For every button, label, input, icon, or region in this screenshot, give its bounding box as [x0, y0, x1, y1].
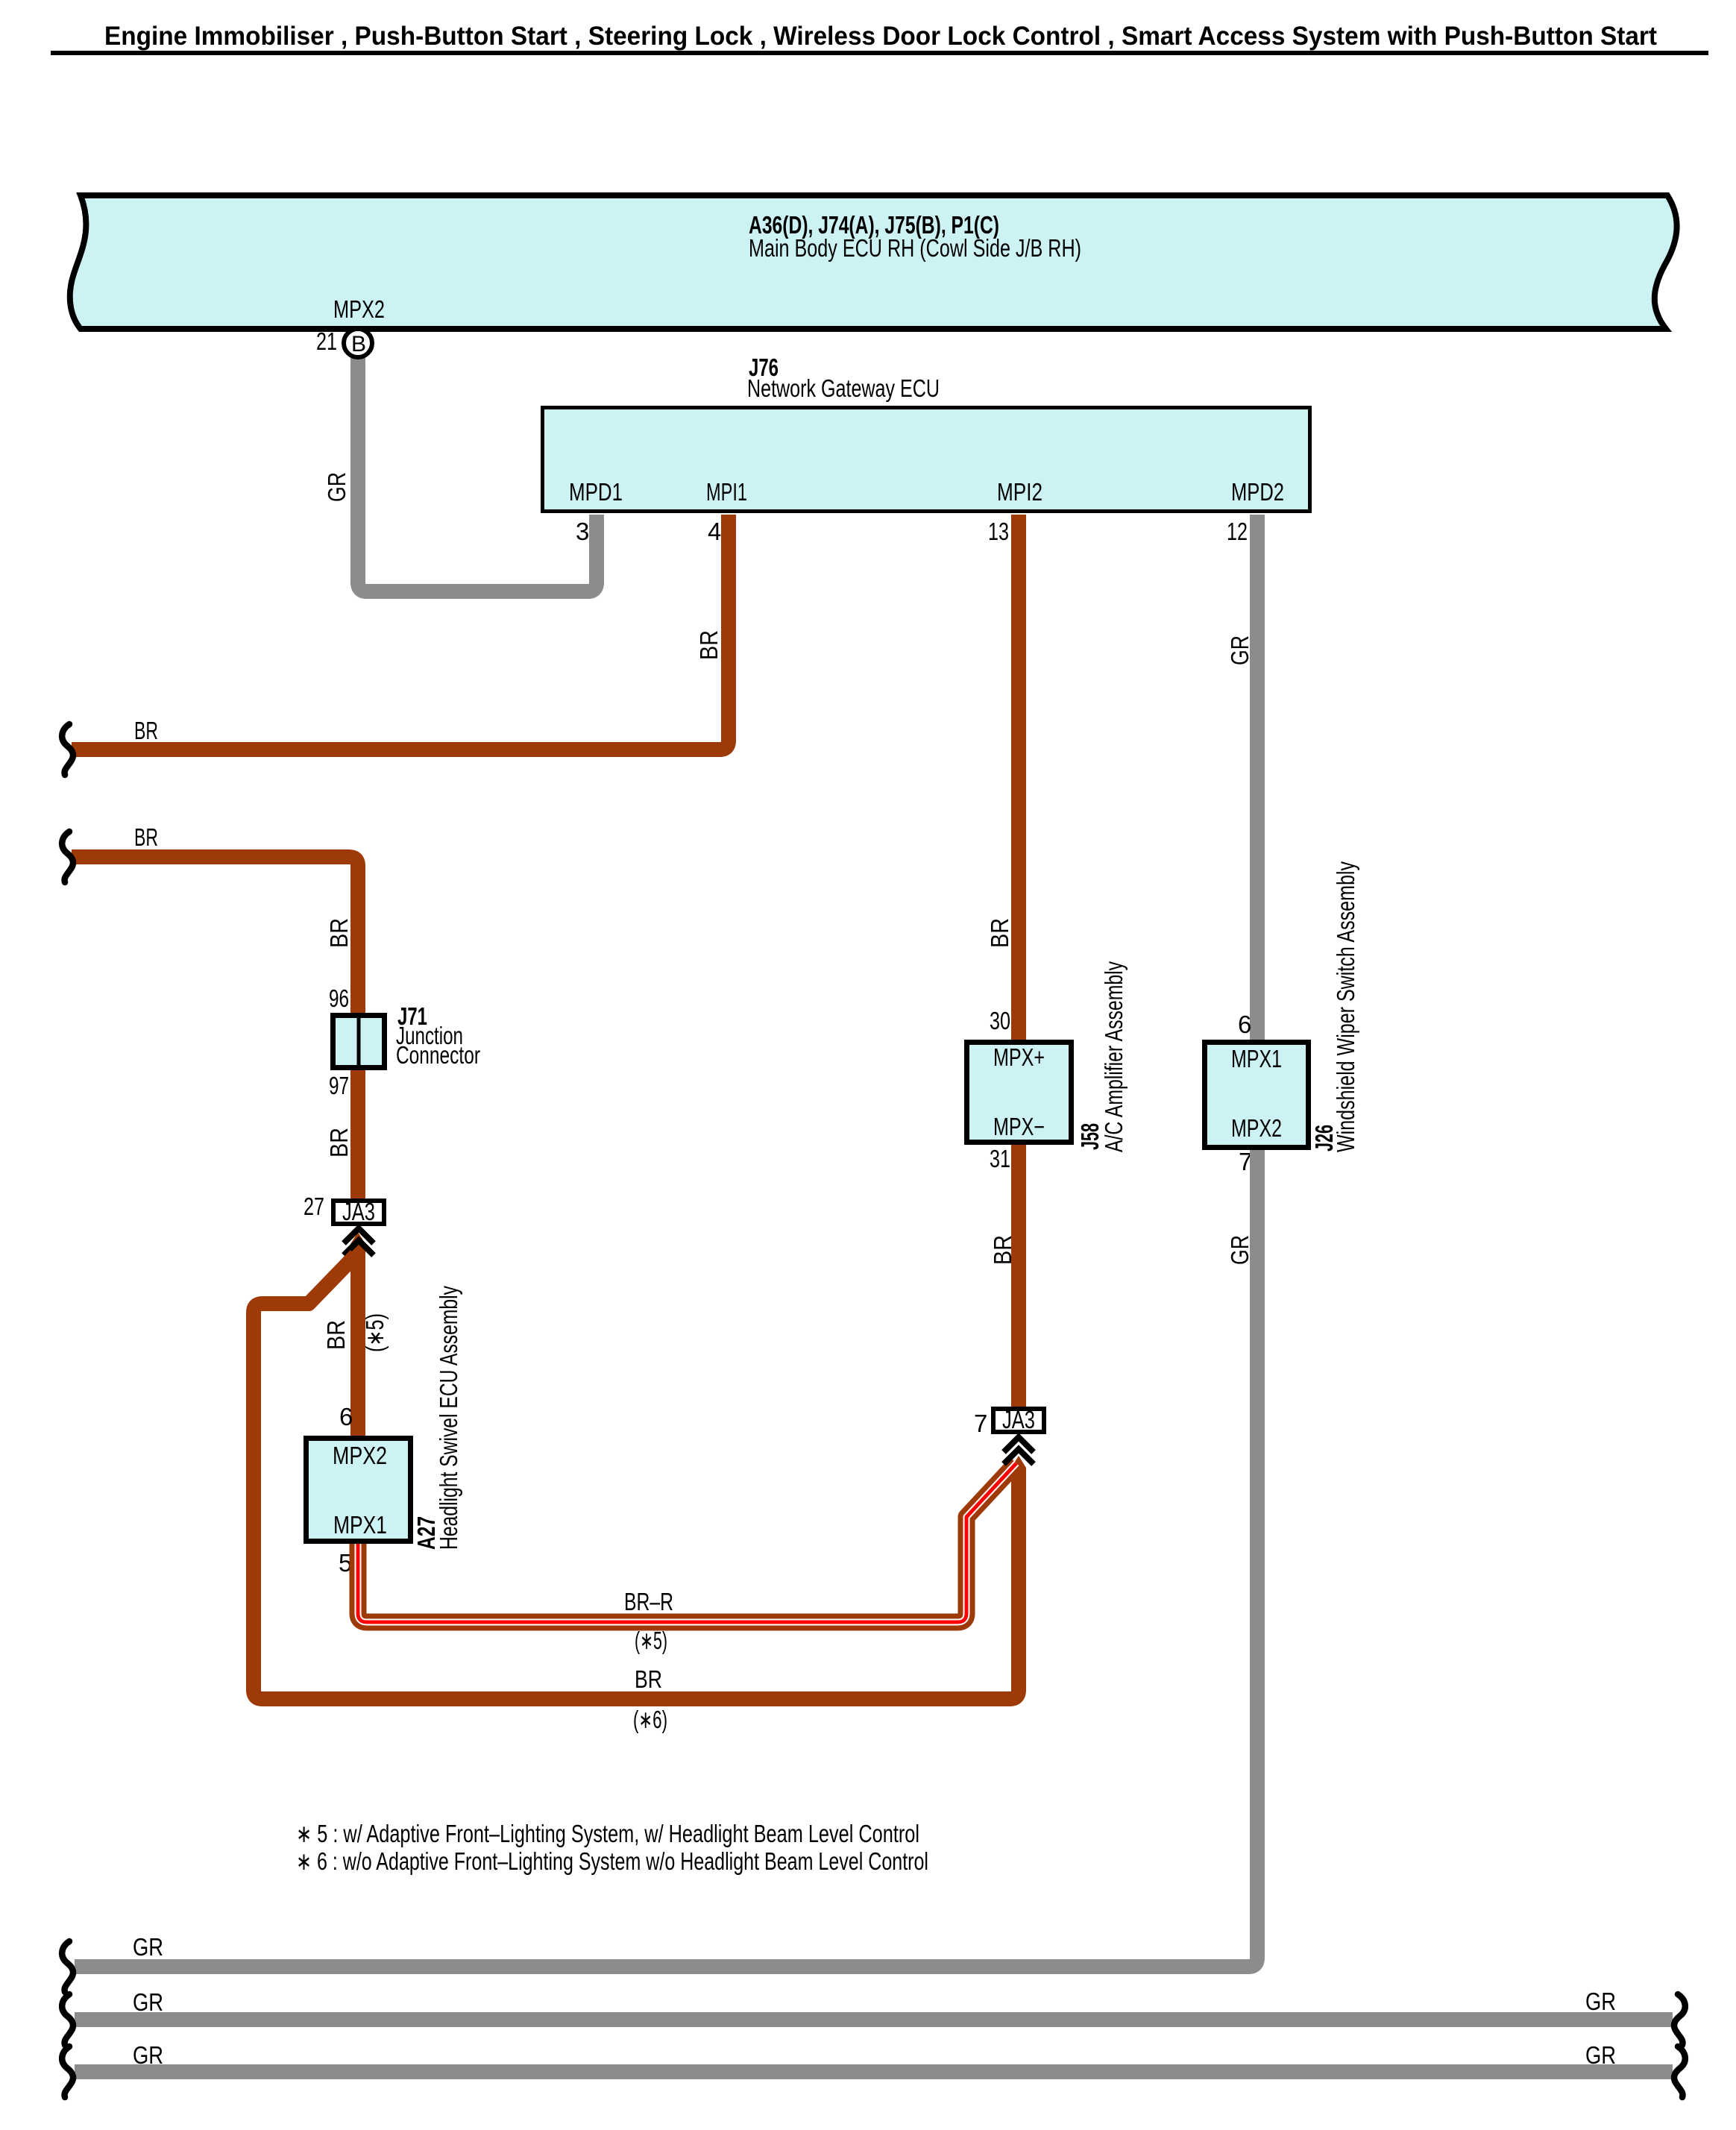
- svg-text:BR–R: BR–R: [624, 1588, 673, 1615]
- svg-text:MPI2: MPI2: [997, 478, 1042, 506]
- svg-text:BR: BR: [134, 823, 158, 851]
- svg-text:Engine Immobiliser , Push-Butt: Engine Immobiliser , Push-Button Start ,…: [104, 22, 1657, 51]
- svg-text:Connector: Connector: [396, 1041, 480, 1069]
- connector J26 Windshield Wiper Switch Assembly: [1205, 1043, 1309, 1148]
- svg-text:96: 96: [329, 984, 349, 1012]
- connector J76 Network Gateway ECU: [543, 354, 1310, 512]
- svg-text:JA3: JA3: [1002, 1406, 1035, 1433]
- svg-text:MPX1: MPX1: [333, 1511, 387, 1539]
- svg-text:30: 30: [990, 1007, 1010, 1034]
- wire BR-R (*5) from A27 pin 5 down, right, up diagonal to JA3 7 chevron: [358, 1463, 1016, 1622]
- connector A27 Headlight Swivel ECU Assembly: [306, 1439, 411, 1542]
- svg-text:B: B: [351, 332, 366, 356]
- svg-text:GR: GR: [1585, 1988, 1616, 2015]
- break symbol left end of bottom line 2: [62, 1994, 73, 2045]
- svg-text:BR: BR: [635, 1665, 662, 1693]
- svg-text:BR: BR: [989, 1235, 1016, 1265]
- svg-text:(∗5): (∗5): [361, 1313, 389, 1352]
- svg-text:27: 27: [304, 1193, 324, 1220]
- chevron pair below JA3 27: [344, 1228, 374, 1255]
- svg-text:A/C Amplifier Assembly: A/C Amplifier Assembly: [1100, 961, 1128, 1152]
- svg-text:MPD2: MPD2: [1231, 478, 1284, 506]
- connector JA3 at pin 7: [993, 1406, 1044, 1433]
- svg-text:BR: BR: [325, 1128, 353, 1157]
- wire GR from J76 MPD2 pin 12 down to J26 MPX1: [1250, 515, 1265, 1040]
- wire BR from J58 MPX- pin 31 down to JA3 7: [1011, 1145, 1026, 1409]
- svg-text:GR: GR: [133, 1933, 163, 1961]
- svg-text:BR: BR: [134, 717, 158, 744]
- svg-text:GR: GR: [1585, 2041, 1616, 2069]
- svg-text:BR: BR: [695, 630, 723, 660]
- svg-text:∗ 6 : w/o Adaptive Front–Light: ∗ 6 : w/o Adaptive Front–Lighting System…: [296, 1847, 928, 1875]
- break symbol left end of bottom line 3: [62, 2046, 73, 2097]
- svg-text:JA3: JA3: [342, 1198, 375, 1225]
- svg-text:6: 6: [339, 1403, 353, 1430]
- break symbol left end of MPI1 BR wire: [62, 724, 73, 775]
- svg-text:GR: GR: [1226, 635, 1254, 665]
- svg-text:GR: GR: [1226, 1235, 1254, 1265]
- svg-text:(∗5): (∗5): [635, 1627, 667, 1654]
- wire GR from J26 MPX2 pin 7 down to bottom left: [75, 1150, 1257, 1967]
- break symbol left end of bottom line 1: [62, 1941, 73, 1992]
- title underline: [51, 51, 1708, 55]
- connector JA3 at pin 27: [333, 1198, 384, 1225]
- svg-text:21: 21: [316, 327, 337, 355]
- connector J58 A/C Amplifier Assembly: [967, 1043, 1072, 1143]
- svg-text:MPX2: MPX2: [333, 295, 385, 323]
- svg-text:Headlight Swivel ECU Assembly: Headlight Swivel ECU Assembly: [435, 1286, 462, 1550]
- svg-text:4: 4: [708, 518, 721, 545]
- wire BR (*6) left loop from corner down, across bottom, up to JA3 7 chevron: [254, 1255, 1026, 1699]
- svg-text:MPD1: MPD1: [569, 478, 623, 506]
- svg-text:MPI1: MPI1: [706, 478, 747, 506]
- connector A36(D),J74(A),J75(B),P1(C) Main Body ECU RH bar: [70, 195, 1677, 329]
- svg-text:GR: GR: [323, 472, 350, 502]
- wire GR bottom line 3: [75, 2064, 1673, 2079]
- break symbol right end of bottom line 3: [1674, 2046, 1685, 2097]
- wire BR from J76 MPI2 pin 13 down to J58 MPX+: [1011, 515, 1026, 1040]
- svg-text:∗ 5 : w/ Adaptive Front–Lighti: ∗ 5 : w/ Adaptive Front–Lighting System,…: [296, 1820, 919, 1847]
- wire BR from J76 MPI1 pin 4 down and left to break: [72, 515, 729, 750]
- svg-text:3: 3: [576, 518, 589, 545]
- svg-text:BR: BR: [986, 918, 1013, 948]
- wire GR bottom line 2: [75, 2012, 1673, 2027]
- svg-text:Windshield Wiper Switch Assemb: Windshield Wiper Switch Assembly: [1332, 861, 1359, 1152]
- svg-text:31: 31: [990, 1145, 1010, 1172]
- svg-text:7: 7: [974, 1410, 987, 1437]
- svg-text:GR: GR: [133, 1988, 163, 2016]
- break symbol right end of bottom line 2: [1674, 1994, 1685, 2045]
- title: [104, 22, 1657, 51]
- svg-text:MPX2: MPX2: [1231, 1114, 1282, 1142]
- wire GR from node B down-right-up to J76 pin 3: [358, 351, 597, 591]
- wire BR from left break to J71 pin 96: [72, 857, 358, 1198]
- junction connector J71: [333, 1002, 481, 1069]
- svg-text:BR: BR: [325, 918, 353, 948]
- svg-text:MPX−: MPX−: [993, 1113, 1045, 1140]
- svg-text:MPX1: MPX1: [1231, 1045, 1282, 1072]
- svg-text:MPX2: MPX2: [333, 1442, 387, 1469]
- svg-text:BR: BR: [322, 1320, 350, 1350]
- svg-text:13: 13: [988, 518, 1009, 545]
- break symbol left end of J71 BR wire: [62, 832, 73, 882]
- svg-text:6: 6: [1238, 1011, 1251, 1038]
- node B circle: [344, 329, 372, 357]
- svg-text:Network Gateway ECU: Network Gateway ECU: [747, 374, 940, 402]
- svg-text:(∗6): (∗6): [633, 1706, 667, 1733]
- chevron pair below JA3 7: [1004, 1437, 1034, 1464]
- svg-text:GR: GR: [133, 2041, 163, 2069]
- wire BR (*5) tip and run from JA3 27 chevron down to A27 pin 6: [350, 1232, 365, 1436]
- svg-text:Main Body ECU RH (Cowl Side J/: Main Body ECU RH (Cowl Side J/B RH): [749, 234, 1081, 262]
- svg-text:12: 12: [1227, 518, 1248, 545]
- svg-text:MPX+: MPX+: [993, 1043, 1045, 1071]
- svg-text:97: 97: [329, 1072, 349, 1099]
